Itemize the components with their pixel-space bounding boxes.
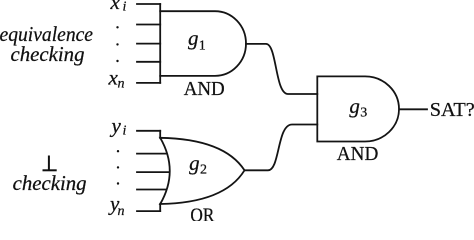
- svg-text:n: n: [118, 77, 125, 92]
- svg-text:y: y: [110, 114, 122, 138]
- svg-text:OR: OR: [190, 205, 214, 221]
- svg-text:AND: AND: [337, 144, 379, 165]
- svg-text:g: g: [349, 94, 360, 118]
- svg-text:i: i: [123, 0, 127, 15]
- svg-text:g: g: [188, 26, 199, 50]
- svg-text:AND: AND: [184, 79, 225, 100]
- svg-text:n: n: [118, 204, 125, 219]
- svg-text:x: x: [110, 0, 121, 14]
- svg-text:3: 3: [360, 106, 367, 121]
- svg-text:checking: checking: [13, 171, 87, 195]
- svg-text:checking: checking: [11, 42, 85, 66]
- svg-text:i: i: [123, 124, 127, 139]
- svg-text:1: 1: [199, 39, 206, 54]
- svg-text:SAT?: SAT?: [430, 100, 474, 121]
- svg-text:g: g: [189, 151, 200, 175]
- svg-text:2: 2: [200, 163, 207, 178]
